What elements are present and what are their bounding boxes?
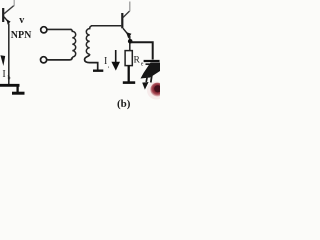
inductor L1 (primary coil) bbox=[71, 29, 76, 57]
wire (down to ground) bbox=[16, 84, 18, 92]
LED red lens bbox=[147, 82, 166, 100]
wire (bottom left horizontal) bbox=[0, 84, 20, 87]
svg-text:e: e bbox=[141, 62, 144, 68]
capacitor plate (top bar) bbox=[144, 60, 160, 62]
wire (node right) bbox=[131, 42, 153, 59]
svg-text:R: R bbox=[134, 56, 141, 66]
wire (primary top) bbox=[48, 28, 72, 30]
svg-text:v: v bbox=[19, 15, 24, 26]
wire (Q2 emitter to node) bbox=[129, 37, 131, 51]
R label bbox=[134, 56, 144, 68]
node (emitter junction dot) bbox=[128, 39, 133, 44]
ground (below R) bbox=[123, 81, 135, 84]
terminal (primary top) bbox=[41, 27, 47, 33]
wire (Q1 collector stub) bbox=[13, 0, 15, 6]
ground (middle) bbox=[93, 69, 103, 71]
capacitor plate (lower bar) bbox=[146, 63, 157, 65]
wire (Q1 emitter down) bbox=[8, 24, 10, 86]
diode lead (to lens) bbox=[151, 76, 152, 83]
current arrow Ic bbox=[111, 50, 120, 71]
Ic label bbox=[104, 56, 110, 69]
ground (left) bbox=[12, 92, 25, 95]
wire (secondary bottom s-curve) bbox=[85, 54, 98, 70]
svg-text:I: I bbox=[2, 69, 5, 80]
svg-text:b: b bbox=[8, 76, 11, 82]
wire (below R) bbox=[128, 66, 130, 82]
transistor Q1 bbox=[3, 6, 14, 25]
terminal (primary bottom) bbox=[41, 57, 47, 63]
svg-text:(b): (b) bbox=[117, 98, 131, 110]
current arrow Ib bbox=[0, 55, 5, 66]
Ib label bbox=[2, 69, 10, 82]
wire (secondary to Q2 base) bbox=[91, 25, 121, 27]
svg-text:NPN: NPN bbox=[11, 30, 32, 41]
wire (Q2 collector stub) bbox=[129, 2, 131, 12]
diode D (filled body) bbox=[141, 63, 161, 79]
inductor L2 (secondary coil) bbox=[86, 26, 91, 54]
light arrow bbox=[142, 75, 148, 90]
transistor Q2 bbox=[122, 11, 131, 39]
resistor R bbox=[125, 51, 132, 66]
wire (primary bottom) bbox=[48, 57, 73, 60]
